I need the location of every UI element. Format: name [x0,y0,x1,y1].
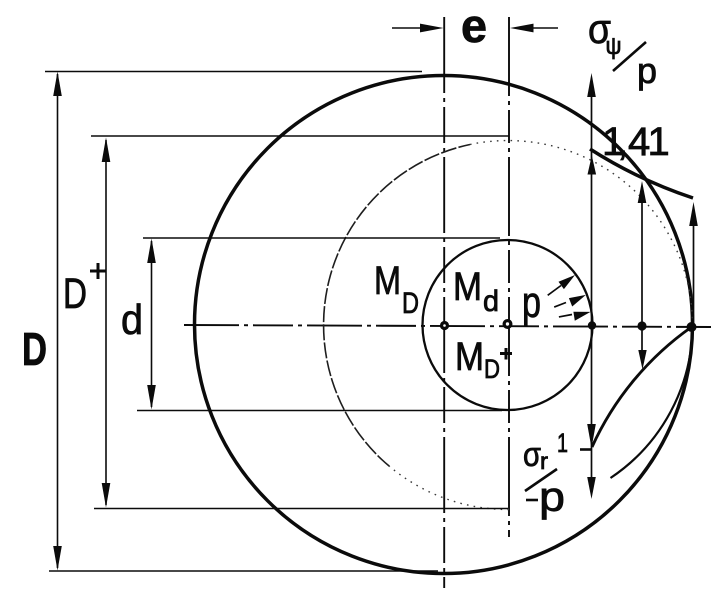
svg-text:M: M [455,335,484,379]
svg-text:ψ: ψ [606,33,622,60]
svg-text:e: e [461,0,487,52]
svg-text:D: D [63,270,87,318]
svg-text:,: , [617,120,628,164]
svg-text:d: d [483,285,499,318]
svg-text:d: d [121,296,143,343]
svg-text:p: p [637,50,657,91]
svg-text:D: D [22,323,47,375]
svg-text:1: 1 [648,120,670,164]
svg-text:M: M [453,265,482,309]
svg-text:1: 1 [557,428,568,458]
svg-text:M: M [374,259,401,303]
svg-text:p: p [522,278,541,327]
svg-text:r: r [540,448,548,474]
svg-text:σ: σ [523,436,541,474]
svg-text:D: D [402,287,419,320]
svg-text:p: p [539,473,565,520]
svg-text:D: D [484,354,500,384]
